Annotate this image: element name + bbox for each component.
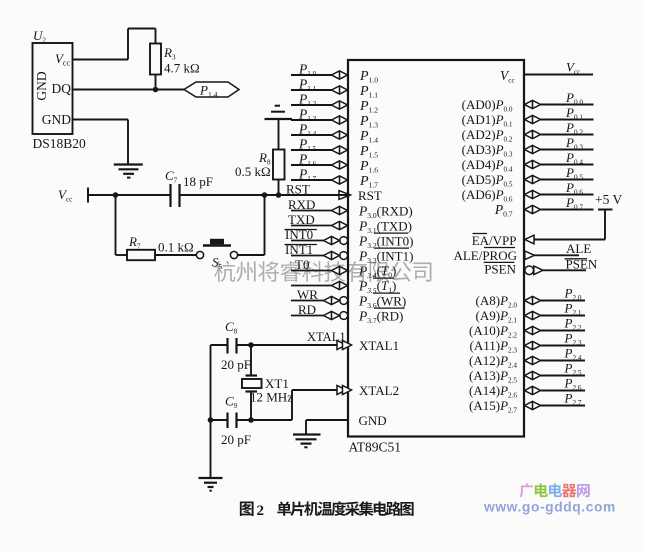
svg-text:0.1 kΩ: 0.1 kΩ	[158, 240, 194, 255]
svg-text:XTAL1: XTAL1	[307, 330, 346, 344]
svg-text:20 pF: 20 pF	[221, 432, 251, 447]
svg-text:+5 V: +5 V	[595, 192, 622, 207]
svg-text:RST: RST	[358, 188, 382, 203]
svg-text:12 MHz: 12 MHz	[250, 390, 293, 405]
svg-text:4.7 kΩ: 4.7 kΩ	[164, 61, 200, 76]
svg-text:20 pF: 20 pF	[221, 357, 251, 372]
svg-text:WR: WR	[297, 287, 318, 302]
svg-text:PSEN: PSEN	[484, 262, 516, 277]
svg-text:GND: GND	[359, 413, 387, 428]
svg-text:DQ: DQ	[52, 81, 72, 96]
svg-text:T0: T0	[295, 257, 309, 272]
svg-text:2: 2	[257, 503, 265, 519]
svg-text:EA/VPP: EA/VPP	[472, 233, 517, 248]
svg-text:0.5 kΩ: 0.5 kΩ	[235, 164, 271, 179]
svg-text:RD: RD	[298, 302, 316, 317]
svg-text:GND: GND	[42, 112, 71, 127]
svg-text:ALE: ALE	[566, 241, 591, 256]
svg-text:RXD: RXD	[288, 197, 315, 212]
svg-text:18 pF: 18 pF	[183, 174, 213, 189]
svg-text:GND: GND	[34, 71, 49, 100]
svg-text:P3.7(RD): P3.7(RD)	[358, 309, 403, 326]
svg-text:XTAL1: XTAL1	[359, 338, 399, 353]
svg-text:DS18B20: DS18B20	[33, 136, 87, 151]
svg-text:AT89C51: AT89C51	[349, 440, 402, 455]
svg-text:TXD: TXD	[288, 212, 315, 227]
svg-text:www.go-gddq.com: www.go-gddq.com	[483, 500, 616, 515]
svg-text:XTAL2: XTAL2	[359, 383, 399, 398]
